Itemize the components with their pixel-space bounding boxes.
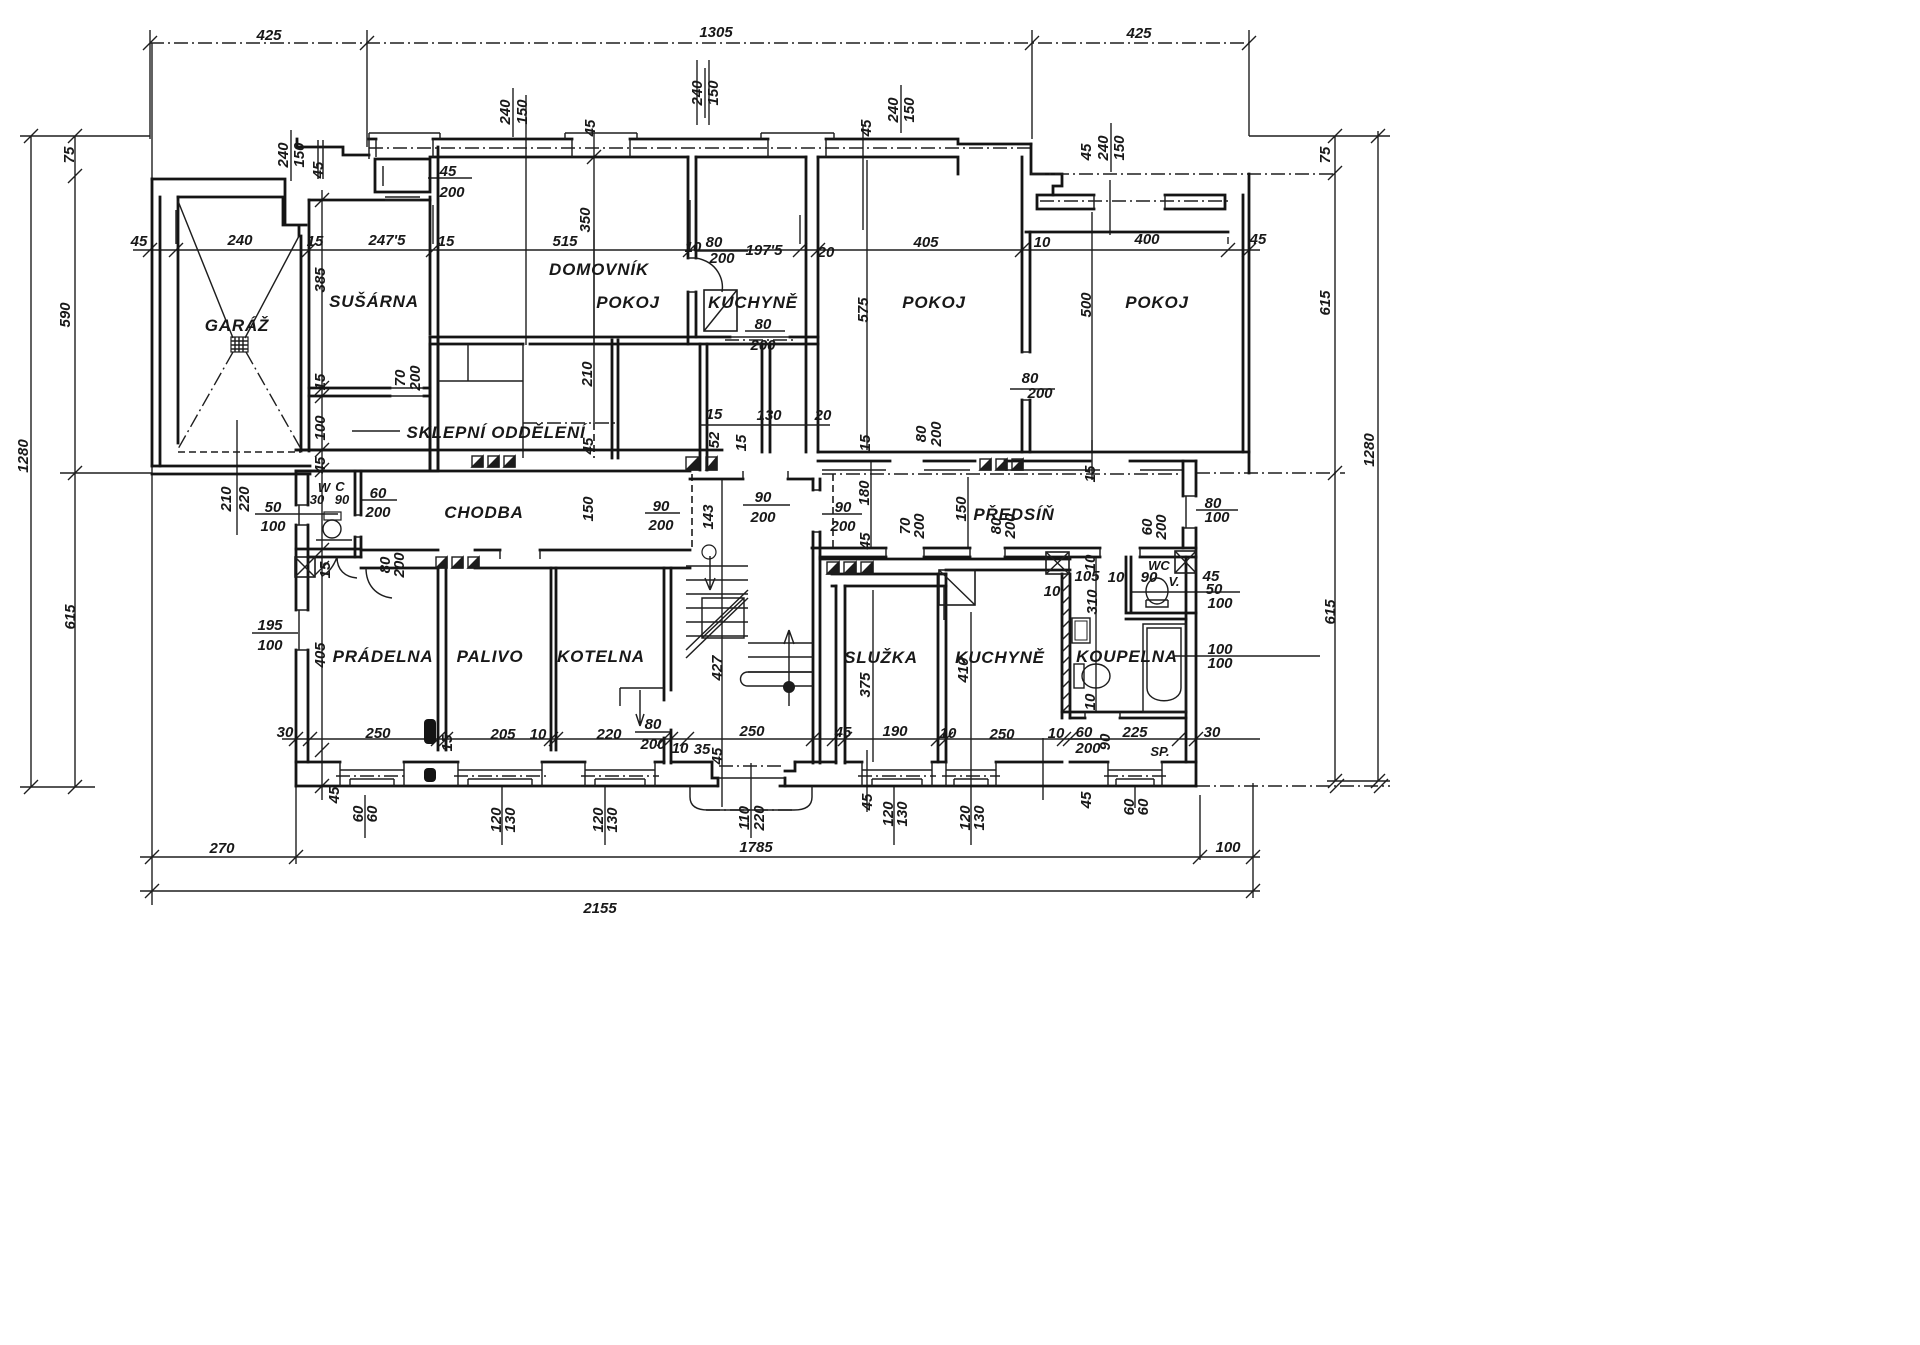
svg-text:50: 50 [265, 499, 282, 516]
X box koupelna left top [1046, 552, 1069, 574]
sklep partitions [523, 344, 594, 458]
svg-text:45: 45 [1078, 143, 1095, 161]
svg-text:45: 45 [1249, 231, 1267, 248]
sluzka? kuchyne sink unit with diagonal [939, 570, 975, 605]
svg-text:1305: 1305 [699, 24, 733, 41]
svg-text:515: 515 [552, 233, 578, 250]
small circle on chodba wall [702, 545, 716, 559]
svg-text:250: 250 [364, 725, 391, 742]
svg-text:45: 45 [312, 456, 329, 474]
garage center hatch square [231, 337, 248, 352]
kotelna/stairhall wall [664, 568, 671, 763]
svg-text:90: 90 [1141, 569, 1158, 586]
svg-text:195: 195 [257, 617, 283, 634]
svg-text:200: 200 [928, 421, 945, 448]
svg-text:200: 200 [647, 517, 674, 534]
svg-text:KOTELNA: KOTELNA [557, 647, 645, 666]
svg-text:100: 100 [1215, 839, 1241, 856]
svg-text:PRÁDELNA: PRÁDELNA [333, 647, 434, 666]
svg-text:45: 45 [834, 724, 852, 741]
svg-text:V.: V. [1168, 574, 1179, 589]
svg-text:425: 425 [1125, 25, 1152, 42]
bottom chain y=739 [282, 738, 1260, 740]
right vertical dim 75/615/615 [1328, 129, 1342, 788]
svg-text:200: 200 [1002, 513, 1019, 540]
svg-text:10: 10 [1082, 554, 1099, 571]
svg-text:150: 150 [514, 99, 531, 125]
svg-text:100: 100 [1207, 595, 1233, 612]
svg-text:100: 100 [257, 637, 283, 654]
svg-text:15: 15 [439, 734, 456, 751]
svg-text:10: 10 [530, 726, 547, 743]
svg-text:130: 130 [756, 407, 782, 424]
svg-text:2155: 2155 [582, 900, 617, 917]
pokoj1/pokoj2 bottom wall band y452/461 [818, 452, 1249, 461]
kuchyne left wall door [943, 586, 945, 620]
svg-text:150: 150 [901, 97, 918, 123]
sklep anteroom bottom band [296, 450, 438, 471]
svg-text:90: 90 [1097, 733, 1114, 750]
wc room (right) [1126, 557, 1196, 619]
bottom dims 270/1785/100 y=857 [140, 856, 1260, 858]
svg-text:200: 200 [438, 184, 465, 201]
trio hatch squares sklep wall [472, 456, 515, 467]
stairs landing triangle [702, 598, 744, 638]
svg-text:130: 130 [604, 807, 621, 833]
kotelna niche [620, 688, 664, 706]
left edge vertical x152 [151, 43, 153, 905]
garage annex outer walls [152, 179, 160, 466]
svg-text:10: 10 [1048, 725, 1065, 742]
svg-text:POKOJ: POKOJ [596, 293, 660, 312]
svg-text:1280: 1280 [1361, 433, 1378, 467]
fixtures group [178, 201, 1196, 782]
sklep bottom band / chodba top [296, 450, 722, 471]
svg-text:130: 130 [971, 805, 988, 831]
svg-text:220: 220 [236, 486, 253, 513]
wc room left of chodba [355, 471, 361, 557]
bottom dim 2155 y=891 [140, 890, 1260, 892]
svg-text:143: 143 [700, 504, 717, 530]
svg-text:247'5: 247'5 [368, 232, 407, 249]
right outer wall [1243, 174, 1249, 473]
svg-text:90: 90 [755, 489, 772, 506]
svg-text:DOMOVNÍK: DOMOVNÍK [549, 260, 650, 279]
svg-text:270: 270 [208, 840, 235, 857]
svg-text:250: 250 [738, 723, 765, 740]
svg-text:150: 150 [705, 80, 722, 106]
kotelna niche arrow [636, 690, 644, 726]
svg-text:60: 60 [1076, 724, 1093, 741]
trio hatch squares predsin/sluzka [827, 562, 873, 574]
svg-text:200: 200 [1026, 385, 1053, 402]
svg-text:SP.: SP. [1150, 744, 1169, 759]
svg-text:150: 150 [291, 142, 308, 168]
svg-text:SKLEPNÍ ODDĚLENÍ: SKLEPNÍ ODDĚLENÍ [406, 423, 588, 442]
svg-text:20: 20 [817, 244, 835, 261]
susarna bottom wall + door [309, 388, 430, 396]
X box left wall [295, 557, 315, 577]
wc right toilet [1146, 578, 1168, 604]
sluzka box [832, 574, 946, 586]
svg-text:15: 15 [307, 233, 324, 250]
svg-text:405: 405 [912, 234, 939, 251]
svg-text:10: 10 [1044, 583, 1061, 600]
walls group [152, 133, 1335, 810]
garage door dashed [178, 451, 301, 453]
svg-text:10: 10 [1108, 569, 1125, 586]
svg-text:10: 10 [685, 239, 702, 256]
chodba bottom band y550/568 [296, 549, 690, 568]
right step of main wall [1031, 144, 1062, 195]
svg-text:45: 45 [582, 119, 599, 137]
window sills top [369, 133, 440, 157]
svg-text:427: 427 [709, 655, 726, 682]
koupelna right wall [1186, 557, 1196, 786]
svg-text:250: 250 [988, 726, 1015, 743]
svg-text:80: 80 [755, 316, 772, 333]
domovnik+sklep top wall band y337/344 [430, 337, 818, 344]
svg-text:220: 220 [751, 805, 768, 832]
svg-text:385: 385 [312, 267, 329, 293]
svg-text:10: 10 [672, 740, 689, 757]
left vertical dim 75/590/615 [68, 129, 82, 794]
stairs diagonal break [686, 590, 748, 658]
wall left of stair hall top [700, 344, 707, 470]
far right vertical dim 1280 [1371, 129, 1385, 788]
main top wall outer y139 with window gaps [369, 139, 1031, 144]
garage right wall / susarna left [301, 200, 309, 451]
handrail U [741, 672, 814, 686]
trio hatch squares chodba bottom [436, 557, 479, 568]
corridor shaft partition [762, 344, 770, 452]
svg-text:590: 590 [57, 302, 74, 328]
svg-text:205: 205 [489, 726, 516, 743]
extension verticals to chain [176, 200, 1228, 244]
hatch square pair sklep right [686, 457, 717, 470]
svg-text:15: 15 [1082, 465, 1099, 482]
fraction bars for rotated top pairs [291, 68, 1111, 181]
main horizontal chain y=250 [133, 249, 1260, 251]
left inner vertical dim x=322 [321, 190, 323, 800]
svg-text:200: 200 [391, 552, 408, 579]
stair hall right wall [813, 479, 820, 763]
svg-text:200: 200 [1153, 514, 1170, 541]
svg-text:45: 45 [310, 161, 327, 179]
svg-text:15: 15 [438, 233, 455, 250]
chodba wc toilet [323, 520, 341, 538]
bottom windows [340, 762, 404, 786]
zadveri porch [375, 159, 430, 192]
praderna/palivo partition [438, 568, 446, 750]
svg-text:200: 200 [407, 365, 424, 392]
X box right wall top [1175, 551, 1196, 573]
svg-text:200: 200 [911, 513, 928, 540]
svg-text:PALIVO: PALIVO [457, 647, 524, 666]
svg-text:15: 15 [857, 434, 874, 451]
svg-text:375: 375 [857, 672, 874, 698]
svg-text:75: 75 [61, 146, 78, 163]
svg-text:45: 45 [857, 532, 874, 550]
garage X diagonals [178, 201, 299, 338]
svg-text:60: 60 [1135, 798, 1152, 815]
svg-text:240: 240 [275, 142, 292, 169]
kuchyne right / pokoj1 left wall [806, 157, 818, 452]
stairs upper flight [686, 566, 748, 636]
svg-text:10: 10 [940, 725, 957, 742]
svg-text:200: 200 [708, 250, 735, 267]
predsin right wall with window [1183, 461, 1196, 557]
svg-text:100: 100 [260, 518, 286, 535]
svg-text:75: 75 [1317, 146, 1334, 163]
stairs lower flight [748, 643, 813, 672]
main top wall inner y157 [430, 157, 958, 174]
svg-text:130: 130 [502, 807, 519, 833]
bottom wall band y762/786 [296, 761, 1196, 764]
svg-text:30: 30 [277, 724, 294, 741]
svg-text:225: 225 [1121, 724, 1148, 741]
upper kuchyne sink unit [704, 290, 737, 331]
svg-text:410: 410 [955, 657, 972, 684]
prádelna door arc [366, 568, 392, 598]
wc door arc [322, 557, 357, 578]
room height extension lines [866, 160, 868, 450]
dimension lines group [20, 30, 1390, 905]
garage interior left wall [177, 197, 180, 443]
kuchyne right hatched wall / koupelna left [1062, 574, 1070, 718]
svg-text:30: 30 [1204, 724, 1221, 741]
svg-text:210: 210 [579, 361, 596, 388]
svg-text:200: 200 [829, 518, 856, 535]
svg-text:15: 15 [312, 373, 329, 390]
svg-text:45: 45 [130, 233, 148, 250]
koupelna bottom wall [1062, 712, 1186, 718]
svg-text:240: 240 [226, 232, 253, 249]
svg-text:100: 100 [312, 415, 329, 441]
svg-text:60: 60 [364, 805, 381, 822]
svg-text:45: 45 [1078, 791, 1095, 809]
svg-text:20: 20 [814, 407, 832, 424]
svg-text:80: 80 [645, 716, 662, 733]
svg-text:90: 90 [835, 499, 852, 516]
svg-text:400: 400 [1133, 231, 1160, 248]
svg-text:240: 240 [497, 99, 514, 126]
svg-text:1785: 1785 [739, 839, 773, 856]
svg-text:240: 240 [885, 97, 902, 124]
svg-text:500: 500 [1078, 292, 1095, 318]
svg-text:200: 200 [749, 337, 776, 354]
svg-text:15: 15 [317, 561, 334, 578]
svg-text:100: 100 [1207, 655, 1233, 672]
svg-text:350: 350 [577, 207, 594, 233]
kuchyne lower top band [820, 559, 1070, 570]
trio hatch squares predsin top [980, 459, 1023, 470]
domovnik/kuchyne wall [688, 157, 696, 344]
svg-text:425: 425 [255, 27, 282, 44]
svg-text:45: 45 [858, 119, 875, 137]
bathtub [1143, 624, 1186, 712]
door arc domovnik-kuchyne [696, 258, 722, 292]
svg-text:240: 240 [1095, 135, 1112, 162]
stair hall top wall [690, 478, 813, 481]
svg-text:200: 200 [749, 509, 776, 526]
svg-text:615: 615 [1322, 599, 1339, 625]
svg-text:150: 150 [580, 496, 597, 522]
entrance door jambs [712, 762, 795, 786]
svg-text:KOUPELNA: KOUPELNA [1076, 647, 1178, 666]
svg-text:POKOJ: POKOJ [1125, 293, 1189, 312]
svg-text:52: 52 [706, 431, 723, 448]
susarna top block [297, 139, 369, 155]
svg-text:405: 405 [312, 642, 329, 669]
svg-text:15: 15 [733, 434, 750, 451]
left outer wall below [296, 471, 308, 786]
svg-text:SLUŽKA: SLUŽKA [844, 648, 918, 667]
svg-text:80: 80 [706, 234, 723, 251]
sklep left wall [430, 337, 438, 470]
kuchyne bottom window 80/200 [725, 339, 795, 341]
pokoj2 parapet/top [1037, 195, 1225, 209]
pokoj1/pokoj2 partition [1022, 157, 1030, 452]
svg-text:1280: 1280 [15, 439, 32, 473]
predsin box [813, 490, 820, 532]
svg-text:220: 220 [595, 726, 622, 743]
svg-text:310: 310 [1084, 589, 1101, 615]
svg-text:130: 130 [894, 801, 911, 827]
svg-text:575: 575 [855, 297, 872, 323]
svg-text:200: 200 [639, 736, 666, 753]
misc leader lines [428, 177, 472, 179]
koupelna sink [1072, 618, 1090, 643]
svg-text:45: 45 [709, 747, 726, 765]
svg-text:15: 15 [706, 406, 723, 423]
palivo/kotelna partition [551, 568, 556, 750]
svg-text:150: 150 [1111, 135, 1128, 161]
svg-text:45: 45 [439, 163, 457, 180]
stairs down arrow [705, 556, 715, 590]
svg-text:W: W [318, 480, 332, 495]
svg-text:GARÁŽ: GARÁŽ [205, 316, 269, 335]
svg-text:45: 45 [580, 437, 597, 455]
top dim line 425/1305/425 [150, 42, 1249, 44]
svg-text:190: 190 [882, 723, 908, 740]
svg-text:45: 45 [859, 793, 876, 811]
far left vertical dim 1280 [24, 129, 38, 794]
svg-text:90: 90 [653, 498, 670, 515]
svg-text:240: 240 [689, 80, 706, 107]
stairs up arrow [784, 630, 794, 706]
susarna right wall [430, 147, 438, 470]
svg-text:90: 90 [335, 492, 350, 507]
entrance porch step [690, 786, 812, 810]
svg-text:180: 180 [856, 480, 873, 506]
svg-text:100: 100 [1204, 509, 1230, 526]
svg-text:10: 10 [1082, 693, 1099, 710]
labels group [15, 24, 1378, 917]
ink blobs (flue) [424, 719, 436, 744]
center vertical ext lines [587, 133, 601, 345]
svg-text:200: 200 [364, 504, 391, 521]
svg-text:60: 60 [370, 485, 387, 502]
koupelna toilet [1074, 664, 1084, 688]
newel dot [783, 681, 795, 693]
svg-text:KUCHYNĚ: KUCHYNĚ [708, 293, 798, 312]
svg-text:POKOJ: POKOJ [902, 293, 966, 312]
svg-text:45: 45 [326, 786, 343, 804]
svg-text:10: 10 [1034, 234, 1051, 251]
svg-text:CHODBA: CHODBA [444, 503, 523, 522]
svg-text:615: 615 [1317, 290, 1334, 316]
svg-text:210: 210 [218, 486, 235, 513]
svg-text:150: 150 [953, 496, 970, 522]
svg-text:SUŠÁRNA: SUŠÁRNA [329, 292, 419, 311]
svg-text:615: 615 [62, 604, 79, 630]
svg-text:197'5: 197'5 [746, 242, 784, 259]
